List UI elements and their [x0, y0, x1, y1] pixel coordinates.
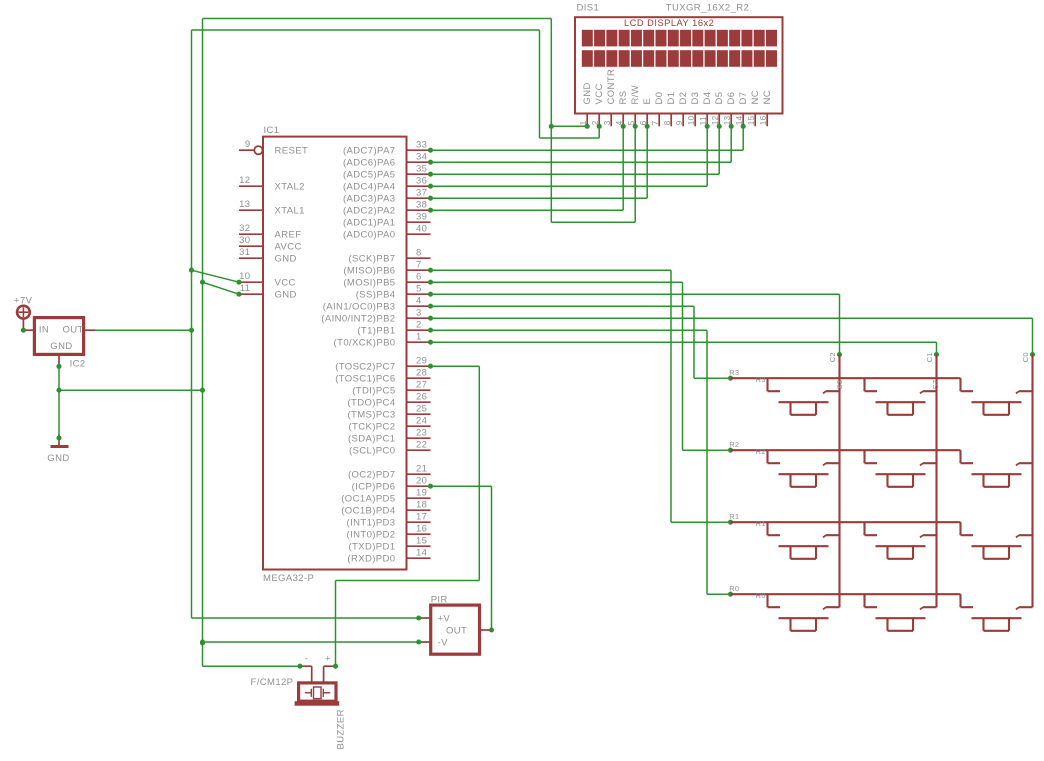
svg-text:17: 17 — [416, 512, 427, 523]
svg-text:31: 31 — [239, 247, 250, 258]
svg-text:GND: GND — [50, 341, 72, 352]
svg-text:LCD DISPLAY 16x2: LCD DISPLAY 16x2 — [624, 18, 714, 28]
svg-text:GND: GND — [275, 290, 297, 301]
svg-text:12: 12 — [239, 175, 250, 186]
svg-text:10: 10 — [687, 115, 696, 125]
svg-text:18: 18 — [416, 500, 427, 511]
svg-text:-V: -V — [438, 637, 449, 648]
svg-text:21: 21 — [416, 464, 427, 475]
svg-text:C2: C2 — [828, 352, 837, 362]
svg-text:R2: R2 — [756, 447, 766, 456]
svg-text:(INT1)PD3: (INT1)PD3 — [347, 518, 396, 529]
svg-text:(T0/XCK)PB0: (T0/XCK)PB0 — [334, 338, 396, 349]
svg-text:IC1: IC1 — [264, 125, 280, 136]
svg-text:D1: D1 — [666, 92, 677, 105]
svg-text:(RXD)PD0: (RXD)PD0 — [347, 554, 395, 565]
svg-text:38: 38 — [416, 200, 427, 211]
svg-text:2: 2 — [416, 320, 422, 331]
svg-text:D3: D3 — [690, 92, 701, 105]
svg-text:(ICP)PD6: (ICP)PD6 — [352, 482, 396, 493]
svg-text:D4: D4 — [702, 92, 713, 105]
svg-text:15: 15 — [416, 536, 427, 547]
svg-text:14: 14 — [416, 548, 427, 559]
svg-text:F/CM12P: F/CM12P — [251, 677, 294, 688]
svg-text:14: 14 — [735, 115, 744, 125]
svg-text:11: 11 — [240, 283, 251, 294]
svg-text:(SDA)PC1: (SDA)PC1 — [348, 434, 396, 445]
svg-text:8: 8 — [663, 120, 672, 125]
svg-text:(TDI)PC5: (TDI)PC5 — [352, 386, 395, 397]
svg-text:39: 39 — [416, 212, 427, 223]
svg-text:8: 8 — [416, 248, 422, 259]
svg-text:D0: D0 — [654, 92, 665, 105]
svg-text:(ADC5)PA5: (ADC5)PA5 — [343, 170, 396, 181]
svg-text:9: 9 — [675, 120, 684, 125]
svg-text:DIS1: DIS1 — [577, 3, 600, 14]
svg-text:+: + — [325, 654, 331, 665]
svg-text:VCC: VCC — [275, 278, 296, 289]
svg-text:36: 36 — [416, 176, 427, 187]
svg-text:(ADC0)PA0: (ADC0)PA0 — [343, 230, 396, 241]
svg-text:1: 1 — [416, 332, 422, 343]
svg-text:IC2: IC2 — [70, 359, 86, 370]
svg-text:GND: GND — [582, 82, 593, 104]
svg-text:30: 30 — [239, 235, 250, 246]
svg-text:R3: R3 — [729, 368, 739, 377]
svg-text:OUT: OUT — [446, 625, 467, 636]
svg-text:(ADC2)PA2: (ADC2)PA2 — [343, 206, 396, 217]
svg-text:+V: +V — [438, 613, 451, 624]
svg-text:(TCK)PC2: (TCK)PC2 — [348, 422, 395, 433]
svg-text:3: 3 — [603, 120, 612, 125]
svg-text:(T1)PB1: (T1)PB1 — [357, 326, 395, 337]
svg-text:(ADC7)PA7: (ADC7)PA7 — [343, 146, 396, 157]
svg-text:(OC2)PD7: (OC2)PD7 — [348, 470, 396, 481]
svg-text:9: 9 — [245, 139, 251, 150]
svg-text:(MOSI)PB5: (MOSI)PB5 — [343, 278, 395, 289]
svg-text:AVCC: AVCC — [275, 242, 302, 253]
svg-text:20: 20 — [416, 476, 427, 487]
svg-text:R/W: R/W — [630, 85, 641, 105]
svg-text:(ADC3)PA3: (ADC3)PA3 — [343, 194, 396, 205]
svg-text:XTAL1: XTAL1 — [275, 206, 305, 217]
svg-text:D7: D7 — [738, 92, 749, 105]
svg-text:13: 13 — [239, 199, 250, 210]
svg-text:(SS)PB4: (SS)PB4 — [356, 290, 396, 301]
svg-text:(TOSC2)PC7: (TOSC2)PC7 — [335, 362, 395, 373]
svg-text:5: 5 — [416, 284, 422, 295]
svg-text:S3: S3 — [835, 380, 844, 390]
svg-text:35: 35 — [416, 164, 427, 175]
svg-text:26: 26 — [416, 392, 427, 403]
svg-text:R2: R2 — [729, 440, 739, 449]
svg-text:CONTR: CONTR — [606, 69, 617, 105]
svg-text:GND: GND — [47, 453, 69, 464]
svg-text:37: 37 — [416, 188, 427, 199]
svg-text:R0: R0 — [729, 584, 739, 593]
svg-text:VCC: VCC — [594, 83, 605, 104]
svg-text:(OC1B)PD4: (OC1B)PD4 — [341, 506, 395, 517]
svg-text:XTAL2: XTAL2 — [275, 182, 305, 193]
svg-text:D6: D6 — [726, 92, 737, 105]
svg-text:AREF: AREF — [275, 230, 302, 241]
svg-text:E: E — [642, 98, 653, 105]
svg-text:24: 24 — [416, 416, 427, 427]
svg-text:12: 12 — [711, 115, 720, 125]
svg-text:32: 32 — [239, 223, 250, 234]
svg-text:(TOSC1)PC6: (TOSC1)PC6 — [335, 374, 395, 385]
svg-text:+7V: +7V — [14, 296, 33, 307]
svg-text:34: 34 — [416, 152, 427, 163]
svg-text:R3: R3 — [756, 375, 766, 384]
svg-text:16: 16 — [416, 524, 427, 535]
svg-text:(TDO)PC4: (TDO)PC4 — [347, 398, 395, 409]
svg-text:(ADC4)PA4: (ADC4)PA4 — [343, 182, 396, 193]
svg-text:PIR: PIR — [431, 595, 448, 606]
svg-text:-: - — [305, 654, 309, 665]
svg-text:23: 23 — [416, 428, 427, 439]
svg-text:7: 7 — [651, 120, 660, 125]
svg-text:28: 28 — [416, 368, 427, 379]
svg-text:D2: D2 — [678, 92, 689, 105]
svg-text:15: 15 — [747, 115, 756, 125]
svg-text:(AIN0/INT2)PB2: (AIN0/INT2)PB2 — [321, 314, 395, 325]
svg-text:(OC1A)PD5: (OC1A)PD5 — [341, 494, 395, 505]
svg-text:7: 7 — [416, 260, 422, 271]
svg-text:(TXD)PD1: (TXD)PD1 — [348, 542, 395, 553]
svg-text:(INT0)PD2: (INT0)PD2 — [347, 530, 396, 541]
svg-text:11: 11 — [699, 116, 708, 125]
svg-text:IN: IN — [39, 325, 49, 336]
svg-text:NC: NC — [762, 90, 773, 105]
svg-text:4: 4 — [416, 296, 422, 307]
svg-text:22: 22 — [416, 440, 427, 451]
svg-text:27: 27 — [416, 380, 427, 391]
svg-text:(AIN1/OC0)PB3: (AIN1/OC0)PB3 — [323, 302, 396, 313]
svg-text:RESET: RESET — [275, 146, 309, 157]
svg-text:MEGA32-P: MEGA32-P — [263, 573, 314, 584]
svg-text:25: 25 — [416, 404, 427, 415]
svg-text:(SCL)PC0: (SCL)PC0 — [349, 446, 396, 457]
svg-text:(ADC1)PA1: (ADC1)PA1 — [343, 218, 396, 229]
svg-text:OUT: OUT — [63, 325, 84, 336]
svg-text:C1: C1 — [925, 352, 934, 362]
svg-text:BUZZER: BUZZER — [336, 709, 347, 749]
svg-text:10: 10 — [239, 271, 250, 282]
svg-text:RS: RS — [618, 91, 629, 105]
svg-text:D5: D5 — [714, 92, 725, 105]
svg-text:R0: R0 — [756, 591, 766, 600]
svg-text:R1: R1 — [729, 512, 739, 521]
svg-text:(SCK)PB7: (SCK)PB7 — [348, 254, 395, 265]
svg-text:13: 13 — [723, 115, 732, 125]
svg-text:R1: R1 — [756, 519, 766, 528]
svg-text:33: 33 — [416, 140, 427, 151]
svg-text:C0: C0 — [1021, 352, 1030, 362]
svg-text:3: 3 — [416, 308, 422, 319]
svg-text:40: 40 — [416, 224, 427, 235]
svg-text:(TMS)PC3: (TMS)PC3 — [347, 410, 395, 421]
svg-text:29: 29 — [416, 356, 427, 367]
svg-text:GND: GND — [275, 254, 297, 265]
svg-text:16: 16 — [759, 115, 768, 125]
svg-text:6: 6 — [416, 272, 422, 283]
svg-text:S7: S7 — [931, 380, 940, 390]
svg-text:(ADC6)PA6: (ADC6)PA6 — [343, 158, 396, 169]
svg-text:NC: NC — [750, 90, 761, 105]
svg-text:(MISO)PB6: (MISO)PB6 — [343, 266, 395, 277]
svg-text:TUXGR_16X2_R2: TUXGR_16X2_R2 — [666, 3, 749, 14]
svg-text:19: 19 — [416, 488, 427, 499]
